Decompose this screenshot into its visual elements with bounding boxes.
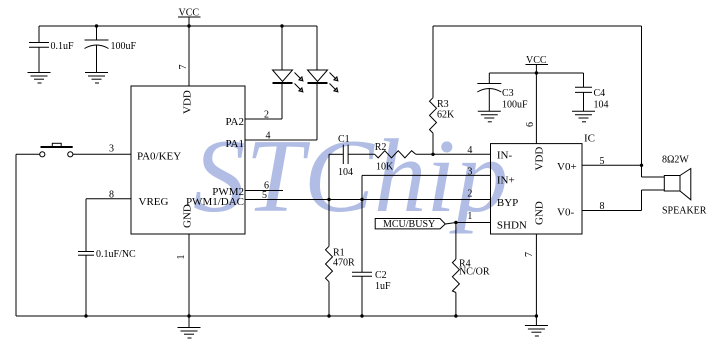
wire top rail left [39, 25, 317, 27]
capacitor 0.1uF [29, 26, 74, 73]
switch S1 (key button) [16, 143, 131, 157]
op-amp U1 (MCU voice chip) [131, 86, 245, 234]
svg-text:104: 104 [338, 167, 353, 178]
svg-text:62K: 62K [437, 110, 455, 121]
speaker LS1 [662, 155, 707, 217]
svg-text:IN-: IN- [497, 150, 513, 162]
svg-text:4: 4 [467, 145, 472, 156]
wire IN+ row [362, 174, 491, 176]
capacitor C4 104 [575, 73, 609, 111]
capacitor C3 100uF (polarized) [477, 73, 528, 111]
svg-text:PWM1/DAC: PWM1/DAC [186, 196, 244, 208]
svg-text:2: 2 [467, 188, 472, 199]
svg-text:IC: IC [584, 133, 595, 145]
svg-text:0.1uF: 0.1uF [51, 41, 75, 52]
wire top rail right [433, 25, 642, 27]
svg-text:SHDN: SHDN [497, 219, 527, 231]
svg-text:6: 6 [525, 122, 536, 127]
wire VDD stem pin7 [188, 26, 190, 86]
svg-text:4: 4 [266, 131, 271, 142]
wire GND stem (right IC) [535, 234, 537, 316]
wire C3/C4 rail [489, 72, 583, 74]
resistor R1 470R [326, 200, 356, 317]
capacitor 0.1uF/NC [78, 249, 136, 316]
svg-text:100uF: 100uF [502, 100, 528, 111]
svg-text:1: 1 [467, 211, 472, 222]
svg-text:1uF: 1uF [375, 281, 391, 292]
svg-text:104: 104 [594, 100, 609, 111]
svg-text:0.1uF/NC: 0.1uF/NC [96, 249, 136, 260]
svg-text:C4: C4 [594, 88, 606, 99]
svg-text:1: 1 [176, 255, 187, 260]
svg-text:3: 3 [109, 144, 114, 155]
wire bottom ground rail [16, 315, 536, 317]
wire GND stem pin1 [188, 234, 190, 316]
svg-text:PA0/KEY: PA0/KEY [137, 151, 181, 163]
wire PWM2 stub pin6 [245, 190, 283, 192]
ground (under C3) [478, 111, 501, 122]
node MCU/BUSY flag [375, 219, 490, 231]
svg-text:10K: 10K [376, 162, 394, 173]
resistor R4 NC/OR [452, 223, 489, 317]
ground (right IC) [525, 316, 548, 336]
wire VDD stem pin6 (right IC) [535, 73, 537, 144]
svg-text:V0-: V0- [557, 206, 574, 218]
svg-text:C3: C3 [502, 88, 514, 99]
svg-text:7: 7 [524, 252, 535, 257]
svg-text:2: 2 [264, 110, 269, 121]
svg-text:100uF: 100uF [111, 41, 137, 52]
ground (under C4) [572, 111, 595, 122]
capacitor C2 1uF [352, 175, 391, 316]
svg-text:VREG: VREG [139, 196, 169, 208]
svg-text:7: 7 [178, 65, 189, 70]
svg-text:C1: C1 [338, 134, 350, 145]
svg-text:MCU/BUSY: MCU/BUSY [383, 219, 435, 230]
svg-text:VDD: VDD [534, 147, 546, 171]
wire left vertical [15, 154, 17, 316]
resistor R2 10K [375, 142, 491, 173]
LED D1 (to PA2) [245, 26, 303, 119]
op-amp IC (audio amplifier) [491, 144, 583, 234]
wire VREG pin8 [86, 198, 131, 200]
ground (under 0.1uF) [28, 73, 51, 84]
svg-text:PA2: PA2 [225, 116, 244, 128]
svg-text:R2: R2 [375, 142, 387, 153]
svg-text:3: 3 [467, 167, 472, 178]
svg-text:8Ω2W: 8Ω2W [662, 155, 689, 166]
svg-text:C2: C2 [375, 270, 387, 281]
capacitor 100uF (polarized) [85, 26, 137, 73]
svg-text:GND: GND [534, 201, 546, 225]
svg-text:IN+: IN+ [497, 174, 515, 186]
node junction dots on left rail [95, 24, 98, 27]
wire PWM1/DAC row (to BYP) [245, 199, 491, 201]
svg-text:R3: R3 [437, 99, 449, 110]
svg-text:VDD: VDD [182, 90, 194, 114]
wire V0- row pin8 [582, 210, 642, 212]
ground (under 100uF) [85, 73, 108, 84]
svg-text:V0+: V0+ [557, 161, 577, 173]
node VCC (left) [178, 8, 201, 27]
capacitor C1 104 [329, 134, 375, 200]
svg-text:470R: 470R [333, 258, 355, 269]
ground (left IC) [178, 316, 201, 338]
wire V0+ row pin5 [582, 164, 642, 166]
resistor R3 62K [430, 26, 456, 154]
node rail dots [84, 314, 87, 317]
svg-text:BYP: BYP [497, 197, 518, 209]
svg-text:SPEAKER: SPEAKER [662, 206, 707, 217]
svg-text:NC/OR: NC/OR [459, 267, 490, 278]
LED D2 (to PA1) [245, 26, 338, 140]
svg-text:PA1: PA1 [225, 138, 244, 150]
node VCC (right) [526, 55, 549, 73]
wire speaker feed [641, 26, 643, 177]
